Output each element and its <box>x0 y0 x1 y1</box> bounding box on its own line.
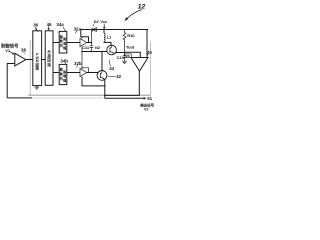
label 40 <box>147 50 152 55</box>
label L1 <box>107 35 112 40</box>
svg-text:34b: 34b <box>60 58 68 63</box>
label 42 with leader <box>116 74 121 79</box>
node dot Tout <box>124 52 126 54</box>
svg-text:増: 増 <box>63 40 66 45</box>
block 36 <box>33 31 42 86</box>
node dot return/emitter <box>104 95 106 97</box>
label 44 with leader <box>109 66 114 71</box>
svg-text:V2: V2 <box>144 107 148 111</box>
svg-text:Tout: Tout <box>126 44 135 49</box>
dot on block 36 top <box>37 30 39 32</box>
node dot C11 bottom <box>91 51 93 53</box>
label 46 <box>47 22 52 27</box>
text in block 34b <box>60 67 67 83</box>
wire Tout to op-amp 40 input <box>125 52 141 57</box>
buffer 32a <box>80 38 87 46</box>
ground under C10 <box>122 61 127 63</box>
base wire to transistor 44 <box>82 51 107 53</box>
wire feedback from V2 line to op-amp <box>7 64 32 98</box>
block 34a <box>59 31 67 53</box>
svg-text:44: 44 <box>109 66 114 71</box>
V2 output line <box>105 97 145 99</box>
wire 46 to 34a <box>53 42 59 44</box>
inductor L1 <box>103 30 105 34</box>
text PWM in block 36 <box>35 53 39 71</box>
label 34a <box>56 22 64 27</box>
32a output wire <box>87 42 92 44</box>
svg-text:C11: C11 <box>82 45 90 50</box>
svg-text:増: 増 <box>63 73 66 78</box>
svg-text:Vfb: Vfb <box>125 54 130 58</box>
wire 46 to 34b <box>53 72 59 74</box>
label C11 <box>82 45 90 50</box>
wire 34a to buffer 32a <box>67 42 80 44</box>
emitter wire 44 to Tout node <box>115 52 125 54</box>
svg-text:34a: 34a <box>56 22 64 27</box>
wire 32b output to 42 base <box>87 72 99 74</box>
node dot link to 42 <box>101 51 103 53</box>
label Tout <box>126 44 135 49</box>
wire 36 to 46 <box>42 59 46 61</box>
label D2 <box>94 19 100 24</box>
svg-text:路: 路 <box>47 62 51 67</box>
capacitor C10 <box>123 53 127 62</box>
32b feedback loop <box>82 68 89 73</box>
block 34b <box>59 64 67 84</box>
resistor R10 <box>123 30 126 53</box>
diode D2 <box>92 28 96 32</box>
label 38 <box>21 47 26 52</box>
svg-text:38: 38 <box>21 47 26 52</box>
svg-text:32b: 32b <box>74 61 82 66</box>
svg-text:路: 路 <box>35 65 39 70</box>
ground under block 36 <box>35 86 39 90</box>
op-amp 40 output return wire <box>105 71 140 95</box>
junction dot rail/C11 <box>91 29 93 31</box>
label 32b <box>74 61 82 66</box>
node dot base wire <box>81 51 83 53</box>
block 46 <box>45 31 53 86</box>
text in block 46 <box>47 49 51 67</box>
input arrow <box>10 51 13 53</box>
label 制御信号 V1 <box>1 43 19 53</box>
text in block 34a <box>60 34 67 50</box>
wire 34b to buffer 32b <box>67 72 80 74</box>
label 36 <box>33 23 38 28</box>
node dot at 32a output <box>91 42 93 44</box>
svg-text:Vcc: Vcc <box>100 19 108 24</box>
svg-text:L1: L1 <box>107 35 112 40</box>
wire down to transistor 42 collector <box>101 52 103 71</box>
label 検出信号 V2 <box>140 103 154 112</box>
wire op-amp output to block 36 <box>26 59 33 61</box>
op-amp 38 <box>15 53 26 66</box>
label 34b <box>60 58 68 63</box>
capacitor C11 <box>90 30 94 52</box>
emitter leg of 42 down to V2 line <box>104 80 107 99</box>
svg-text:51: 51 <box>147 96 152 101</box>
op-amp 40 <box>131 58 148 72</box>
label 32a <box>74 26 82 31</box>
chip boundary box 12 (gray) <box>30 40 150 95</box>
label R10 <box>127 33 135 38</box>
buffer 32b <box>80 68 87 76</box>
vertical link 32a bottom to 32b top <box>81 47 83 69</box>
label 51 <box>147 96 152 101</box>
right rail drop to op-amp 40 <box>146 30 148 58</box>
label 12 <box>138 3 146 10</box>
node dot emitter bus <box>104 85 106 87</box>
svg-text:40: 40 <box>147 50 152 55</box>
label Vcc with arrow <box>100 19 108 24</box>
svg-text:N2: N2 <box>95 45 101 50</box>
svg-text:46: 46 <box>47 22 52 27</box>
svg-text:36: 36 <box>33 23 38 28</box>
svg-text:D2: D2 <box>94 19 100 24</box>
transistor 42 <box>97 71 107 81</box>
Vcc rail <box>81 29 148 31</box>
32b bottom pin to emitter bus <box>82 77 105 86</box>
node dot 32b top <box>81 67 83 69</box>
32a top pin stub <box>81 37 83 39</box>
svg-text:C10: C10 <box>117 55 125 60</box>
svg-text:R10: R10 <box>127 33 135 38</box>
Vfb box <box>125 54 131 58</box>
transistor 44 <box>107 45 117 55</box>
svg-text:42: 42 <box>116 74 121 79</box>
junction dot Vcc on rail <box>103 29 105 31</box>
rail drop to 32a feedback <box>81 30 89 43</box>
label N2 <box>95 45 101 50</box>
label C10 <box>117 55 125 60</box>
leader arrow for 12 <box>127 10 142 20</box>
